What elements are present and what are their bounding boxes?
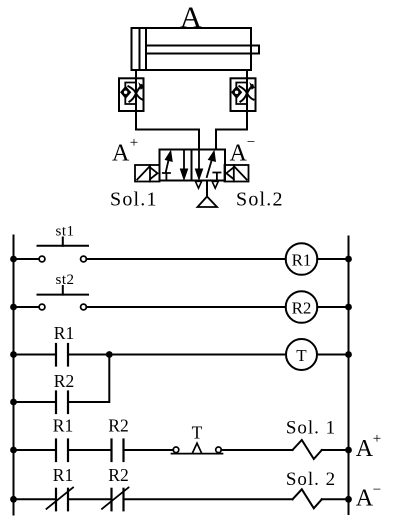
wire row4 left <box>14 449 57 451</box>
pushbutton st1 <box>14 238 89 262</box>
wire row2 <box>86 306 285 308</box>
right rail <box>348 237 350 515</box>
svg-text:Sol. 2: Sol. 2 <box>286 469 336 490</box>
svg-text:R2: R2 <box>108 416 128 436</box>
node branch junction <box>106 351 113 358</box>
wire row1 <box>86 258 285 260</box>
valve left position: up arrow <box>165 151 172 172</box>
flow control valve left: body <box>119 78 144 111</box>
node right rail row4 <box>345 447 352 454</box>
wire row3 left <box>14 354 57 356</box>
label A- row5 <box>356 482 381 512</box>
label st1 <box>55 224 74 240</box>
node left rail row1 <box>10 256 17 263</box>
valve U1 body <box>160 150 226 181</box>
contact R2 NO row4 <box>112 440 124 462</box>
flow control valve left: check ball <box>123 90 128 95</box>
cylinder A body <box>132 28 252 70</box>
relay coil R2 <box>286 291 318 323</box>
label R2 branch <box>54 371 74 391</box>
label A- (retract) <box>230 135 256 167</box>
wire row4 to timer contact <box>124 449 174 451</box>
wire cylinder right port to flow valve <box>246 70 248 78</box>
left rail <box>13 236 15 515</box>
svg-text:R1: R1 <box>53 465 73 485</box>
flow control valve right: check ball <box>234 90 239 95</box>
wire row2 to right rail <box>317 306 348 308</box>
svg-text:R1: R1 <box>54 323 74 343</box>
wire right flow valve to valve port A <box>216 111 247 150</box>
wire row4 to right rail <box>322 449 349 451</box>
label A+ row4 <box>356 431 381 462</box>
svg-text:R1: R1 <box>53 416 73 436</box>
label Sol.2 <box>236 189 284 211</box>
flow control valve left: through line <box>135 78 137 111</box>
timer contact T <box>172 443 223 453</box>
wire row4 between R1 R2 <box>68 449 112 451</box>
solenoid coil Sol. 1 zigzag <box>293 440 322 459</box>
wire row5 to solenoid <box>124 498 293 500</box>
wire row5 left <box>14 498 57 500</box>
svg-text:T: T <box>296 346 307 365</box>
wire row3 to timer coil <box>68 354 286 356</box>
svg-text:A: A <box>356 436 374 462</box>
node left rail row2 <box>10 304 17 311</box>
valve right position: blocked port T <box>213 173 220 181</box>
pushbutton st2 <box>14 286 89 310</box>
cylinder piston rod <box>146 46 259 54</box>
label Sol. 1 <box>286 418 336 439</box>
svg-text:st1: st1 <box>55 224 74 240</box>
svg-text:R1: R1 <box>292 250 312 269</box>
label st2 <box>55 272 74 288</box>
wire row4 to solenoid <box>221 449 292 451</box>
svg-text:A: A <box>230 141 248 167</box>
valve supply line and source triangle <box>198 181 218 208</box>
contact R1 NO row4 <box>56 440 68 462</box>
svg-text:Sol.2: Sol.2 <box>236 189 284 211</box>
svg-text:st2: st2 <box>55 272 74 288</box>
wire row5 to right rail <box>322 498 349 500</box>
valve exhaust triangle left <box>195 181 201 188</box>
svg-text:A: A <box>112 141 130 167</box>
cylinder piston <box>140 28 147 70</box>
node left rail row4 <box>10 447 17 454</box>
wire left flow valve to valve port B <box>136 111 199 150</box>
node right rail row5 <box>345 496 352 503</box>
node left rail row3 <box>10 351 17 358</box>
valve left position: blocked port T <box>163 173 170 181</box>
node left rail row5 <box>10 496 17 503</box>
wire branch left <box>14 401 57 403</box>
label A+ (extend) <box>112 135 138 167</box>
flow control valve left: bypass loop <box>125 83 136 105</box>
flow control valve right: bypass loop <box>236 83 247 105</box>
wire row5 between R1 R2 <box>68 498 112 500</box>
svg-text:−: − <box>247 135 255 151</box>
node right rail row2 <box>345 304 352 311</box>
valve exhaust triangle right <box>212 181 218 188</box>
svg-text:+: + <box>373 431 381 447</box>
flow control valve right: body <box>231 78 256 111</box>
svg-text:+: + <box>130 135 138 151</box>
svg-text:A: A <box>356 486 374 512</box>
node right rail row3 <box>345 351 352 358</box>
flow control valve left: check seat <box>121 87 130 98</box>
label A (cylinder name) <box>180 0 203 35</box>
svg-text:−: − <box>373 482 381 498</box>
valve left position: down arrow <box>180 150 187 180</box>
relay coil R1 <box>286 243 318 275</box>
flow control valve right: through line <box>246 78 248 111</box>
wire row1 to right rail <box>317 258 348 260</box>
contact R1 NC row5 <box>47 488 74 511</box>
valve right position: down arrow (from port B) <box>195 150 202 180</box>
solenoid Sol.1 box <box>135 165 160 182</box>
label Sol.1 <box>110 189 158 211</box>
label R2 row5 <box>108 465 128 485</box>
svg-text:R2: R2 <box>292 298 312 317</box>
valve right position: up arrow <box>207 151 216 177</box>
label R1 row5 <box>53 465 73 485</box>
svg-text:A: A <box>180 0 203 35</box>
wire row3 to right rail <box>317 354 349 356</box>
label R1 row4 <box>53 416 73 436</box>
solenoid Sol.2 box <box>225 165 249 182</box>
svg-text:Sol.1: Sol.1 <box>110 189 158 211</box>
label Sol. 2 <box>286 469 336 490</box>
contact R2 NC row5 <box>102 488 129 511</box>
svg-text:R2: R2 <box>54 371 74 391</box>
wire branch right and riser <box>68 355 109 403</box>
label T contact <box>192 423 203 443</box>
contact R2 NO branch <box>56 392 68 414</box>
svg-text:Sol. 1: Sol. 1 <box>286 418 336 439</box>
contact R1 NO row3 <box>56 344 68 366</box>
svg-text:T: T <box>192 423 203 443</box>
solenoid coil Sol. 2 zigzag <box>293 489 322 508</box>
flow control valve left: throttle arrow <box>128 84 143 102</box>
svg-text:R2: R2 <box>108 465 128 485</box>
wire cylinder left port to flow valve <box>135 70 137 78</box>
timer coil T <box>286 339 317 370</box>
node left rail branch <box>10 399 17 406</box>
flow control valve right: throttle arrow <box>239 84 254 102</box>
node right rail row1 <box>345 256 352 263</box>
label R1 row3 <box>54 323 74 343</box>
flow control valve right: check seat <box>232 87 241 98</box>
label R2 row4 <box>108 416 128 436</box>
